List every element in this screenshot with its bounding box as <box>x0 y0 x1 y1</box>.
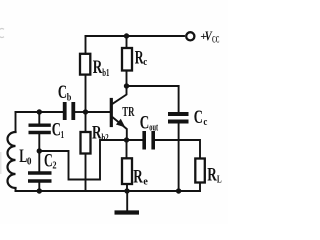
wire emitter node to Cout <box>127 139 143 141</box>
capacitor Cb <box>65 102 74 120</box>
inductor L0 <box>8 112 16 191</box>
node C1 top junction <box>37 109 42 114</box>
wire C2 bottom lead <box>38 181 40 191</box>
label +Vcc <box>200 29 219 45</box>
node top rail junction <box>124 33 129 38</box>
capacitor C2 <box>28 173 52 181</box>
svg-text:L: L <box>217 174 222 185</box>
svg-text:R: R <box>133 167 143 188</box>
resistor Re <box>122 158 132 184</box>
wire base node to transistor base <box>86 111 110 113</box>
node base junction <box>83 109 88 114</box>
svg-text:b: b <box>67 92 72 103</box>
capacitor Cc <box>168 114 189 122</box>
stray smudge left edge <box>0 152 2 174</box>
label Cc <box>194 107 208 128</box>
svg-text:R: R <box>207 165 217 186</box>
label Cb <box>58 82 72 103</box>
svg-text:C: C <box>58 82 67 103</box>
resistor RL <box>195 159 205 183</box>
wire collector node to Cc branch <box>127 85 179 87</box>
label C1 <box>52 119 64 141</box>
capacitor C1 <box>29 125 51 132</box>
stray mark left edge <box>0 29 4 38</box>
node Re ground junction <box>124 188 129 193</box>
terminal +Vcc <box>186 32 194 40</box>
wire Rb2 bottom lead to ground bus <box>85 154 87 192</box>
label L0 <box>19 146 31 167</box>
svg-text:out: out <box>149 123 158 134</box>
ground <box>115 191 140 213</box>
wire Rb1 bottom lead to base node <box>85 75 87 112</box>
wire C1 top lead <box>38 112 40 125</box>
svg-text:2: 2 <box>52 161 56 172</box>
label Re <box>133 167 148 188</box>
wire top supply rail <box>86 35 185 37</box>
wire ground bus <box>16 190 201 192</box>
svg-text:b1: b1 <box>102 67 109 79</box>
node emitter junction <box>124 137 129 142</box>
svg-text:c: c <box>143 57 147 68</box>
label RL <box>207 165 221 186</box>
svg-text:e: e <box>143 177 148 188</box>
capacitor Cout <box>144 131 153 150</box>
label Cout <box>140 112 159 133</box>
wire Cc top lead <box>178 86 180 112</box>
wire Cb right plate to base node <box>75 111 85 113</box>
wire feedback path C1C2 node to emitter <box>39 140 126 180</box>
svg-text:b2: b2 <box>102 132 110 144</box>
svg-text:c: c <box>203 117 207 128</box>
svg-text:CC: CC <box>212 35 220 45</box>
svg-text:0: 0 <box>27 157 32 168</box>
transistor TR <box>111 86 127 140</box>
wire Rc top lead <box>126 36 128 48</box>
wire Re bottom lead <box>126 184 128 191</box>
wire Rc bottom lead to collector node <box>126 71 128 87</box>
resistor Rb2 <box>81 132 91 154</box>
wire Cout to RL <box>155 140 200 159</box>
node C1-C2 junction <box>37 148 42 153</box>
resistor Rb1 <box>80 54 90 75</box>
label Rb2 <box>92 123 109 144</box>
wire Re top lead <box>126 140 128 158</box>
wire Cc bottom lead to ground bus <box>178 124 180 192</box>
wire C1 bottom to C2 top <box>38 133 40 174</box>
svg-text:C: C <box>194 107 203 128</box>
label Rb1 <box>93 57 110 79</box>
svg-text:C: C <box>140 112 150 133</box>
wire Rb1 top lead <box>85 36 87 54</box>
node collector junction <box>124 83 129 88</box>
node Cc ground junction <box>176 188 181 193</box>
wire left tank top <box>16 111 63 113</box>
node C2 bottom junction <box>37 188 42 193</box>
svg-text:R: R <box>93 57 103 78</box>
resistor Rc <box>122 48 132 71</box>
label Rc <box>135 48 148 69</box>
label C2 <box>44 151 57 172</box>
wire Rb2 top lead <box>85 112 87 132</box>
svg-text:1: 1 <box>61 130 64 141</box>
wire RL bottom lead <box>199 183 201 192</box>
svg-text:TR: TR <box>122 105 135 120</box>
